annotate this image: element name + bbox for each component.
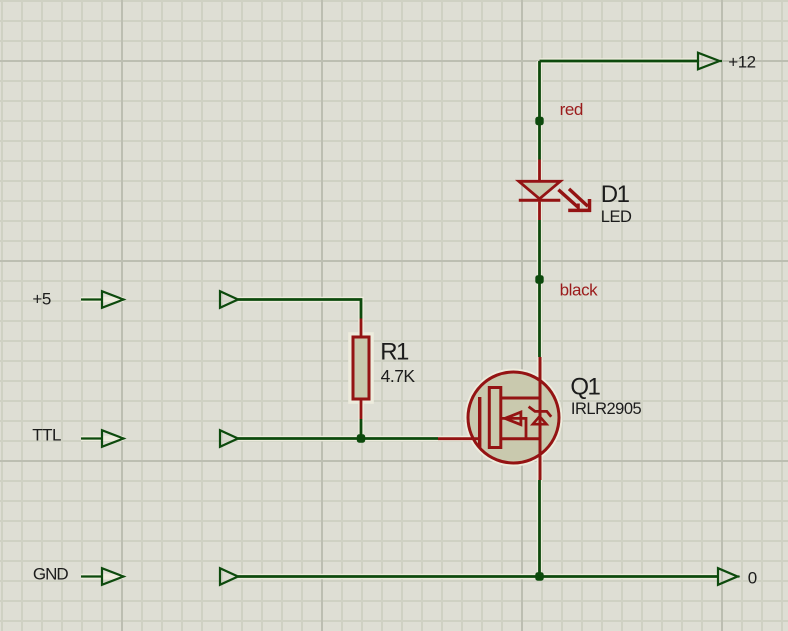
- terminal GND wire-side: [220, 568, 238, 585]
- wire TTL to gate: [238, 437, 438, 440]
- svg-text:+12: +12: [728, 52, 755, 71]
- wire +5 to R1: [238, 300, 361, 319]
- svg-text:IRLR2905: IRLR2905: [571, 400, 642, 418]
- resistor R1: [353, 319, 369, 420]
- diode D1 LED: [519, 160, 591, 221]
- wire ground rail: [238, 575, 718, 578]
- node R1/TTL junction dot: [357, 434, 365, 442]
- wire drain to ground rail: [538, 480, 541, 577]
- transistor Q1 MOSFET: [438, 357, 559, 480]
- terminal 0: [718, 568, 740, 585]
- node red junction dot: [535, 117, 543, 125]
- svg-text:R1: R1: [380, 338, 409, 365]
- svg-text:+5: +5: [32, 290, 50, 309]
- terminal TTL left: [81, 430, 124, 447]
- wire R1 bottom: [360, 419, 363, 439]
- terminal GND left: [81, 568, 124, 585]
- wire cathode vertical (middle): [538, 220, 541, 357]
- svg-text:4.7K: 4.7K: [381, 366, 416, 386]
- node black junction dot: [535, 275, 543, 283]
- svg-text:D1: D1: [601, 181, 630, 208]
- svg-text:black: black: [560, 280, 599, 299]
- terminal TTL wire-side: [220, 430, 238, 447]
- svg-text:Q1: Q1: [570, 373, 600, 400]
- node ground junction dot: [535, 572, 543, 580]
- wire +12 rail horizontal: [540, 60, 699, 63]
- svg-text:LED: LED: [601, 208, 632, 226]
- wire anode vertical (top): [538, 61, 541, 160]
- svg-text:red: red: [560, 100, 583, 119]
- svg-text:0: 0: [748, 569, 757, 588]
- terminal +5 wire-side: [220, 291, 238, 308]
- svg-text:TTL: TTL: [32, 425, 61, 444]
- terminal +12: [698, 53, 722, 70]
- terminal +5 left: [81, 291, 124, 308]
- svg-text:GND: GND: [33, 564, 69, 583]
